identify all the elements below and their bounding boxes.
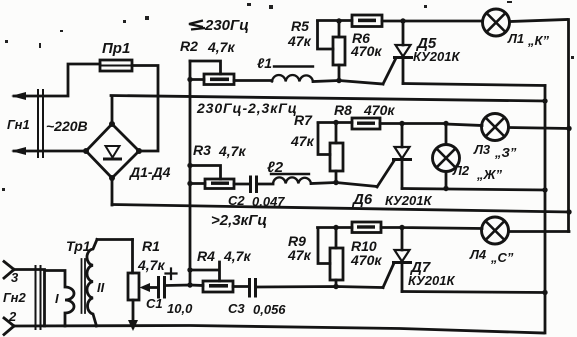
- svg-text:Гн1: Гн1: [7, 117, 30, 132]
- svg-text:R3: R3: [193, 142, 211, 158]
- svg-text:С1: С1: [146, 296, 163, 311]
- svg-text:4,7к: 4,7к: [218, 143, 246, 159]
- svg-text:КУ201К: КУ201К: [413, 49, 460, 64]
- svg-text:R5: R5: [291, 18, 309, 34]
- svg-text:„Ж”: „Ж”: [476, 167, 503, 182]
- svg-text:Тр1: Тр1: [66, 238, 91, 254]
- svg-text:0,047: 0,047: [252, 194, 285, 209]
- svg-text:10,0: 10,0: [167, 301, 193, 316]
- svg-text:230Гц: 230Гц: [204, 17, 249, 34]
- svg-text:2: 2: [8, 309, 17, 324]
- svg-text:R8: R8: [334, 102, 352, 118]
- svg-text:R1: R1: [142, 238, 160, 254]
- svg-text:„З”: „З”: [494, 145, 517, 160]
- svg-text:R7: R7: [294, 112, 313, 128]
- svg-text:4,7к: 4,7к: [137, 257, 165, 273]
- svg-text:47к: 47к: [290, 133, 315, 149]
- svg-text:R4: R4: [197, 248, 215, 264]
- svg-text:470к: 470к: [363, 102, 395, 118]
- svg-text:Л2: Л2: [452, 163, 470, 178]
- svg-text:~220В: ~220В: [46, 118, 88, 134]
- svg-text:„С”: „С”: [490, 250, 514, 265]
- svg-text:0,056: 0,056: [253, 302, 286, 317]
- svg-text:II: II: [97, 280, 105, 295]
- svg-text:Л1: Л1: [507, 31, 524, 46]
- svg-text:470к: 470к: [350, 252, 382, 268]
- svg-text:Гн2: Гн2: [3, 290, 27, 305]
- svg-text:I: I: [55, 291, 59, 306]
- svg-text:Л3: Л3: [473, 142, 491, 157]
- svg-text:С3: С3: [228, 301, 245, 316]
- svg-text:470к: 470к: [350, 43, 382, 59]
- svg-text:47к: 47к: [287, 247, 312, 263]
- svg-text:3: 3: [11, 270, 19, 285]
- svg-text:ℓ2: ℓ2: [267, 159, 284, 176]
- svg-text:>2,3кГц: >2,3кГц: [211, 212, 267, 229]
- svg-text:R2: R2: [180, 38, 198, 54]
- svg-text:С2: С2: [228, 193, 245, 208]
- svg-text:4,7к: 4,7к: [223, 248, 251, 264]
- svg-text:Д6: Д6: [351, 191, 373, 208]
- svg-text:„К”: „К”: [527, 33, 549, 48]
- svg-text:47к: 47к: [287, 33, 312, 49]
- svg-text:Пр1: Пр1: [102, 40, 130, 57]
- svg-text:ℓ1: ℓ1: [257, 55, 272, 71]
- svg-text:Д1-Д4: Д1-Д4: [129, 164, 171, 180]
- svg-text:КУ201К: КУ201К: [408, 273, 455, 288]
- svg-text:4,7к: 4,7к: [207, 39, 235, 55]
- svg-text:КУ201К: КУ201К: [385, 193, 432, 208]
- svg-text:230Гц-2,3кГц: 230Гц-2,3кГц: [196, 100, 298, 116]
- svg-text:Л4: Л4: [469, 247, 487, 262]
